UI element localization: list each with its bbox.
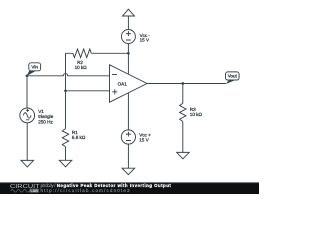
svg-text:15 V: 15 V: [139, 138, 149, 143]
svg-text:OA1: OA1: [118, 82, 128, 87]
svg-text:10 kΩ: 10 kΩ: [190, 112, 203, 117]
svg-text:6.8 kΩ: 6.8 kΩ: [72, 135, 86, 140]
svg-text:triangle: triangle: [38, 114, 54, 119]
svg-text:R3: R3: [190, 107, 196, 112]
svg-text:10 kΩ: 10 kΩ: [75, 65, 88, 70]
svg-text:250 Hz: 250 Hz: [38, 120, 53, 125]
svg-text:V1: V1: [38, 109, 44, 114]
svg-text:Vin: Vin: [31, 64, 38, 69]
svg-text:15 V: 15 V: [140, 38, 150, 43]
svg-text:LAB: LAB: [30, 189, 38, 193]
svg-text:http://circuitlab.com/cdn0te3: http://circuitlab.com/cdn0te3: [41, 188, 131, 193]
svg-text:Vout: Vout: [228, 74, 238, 79]
